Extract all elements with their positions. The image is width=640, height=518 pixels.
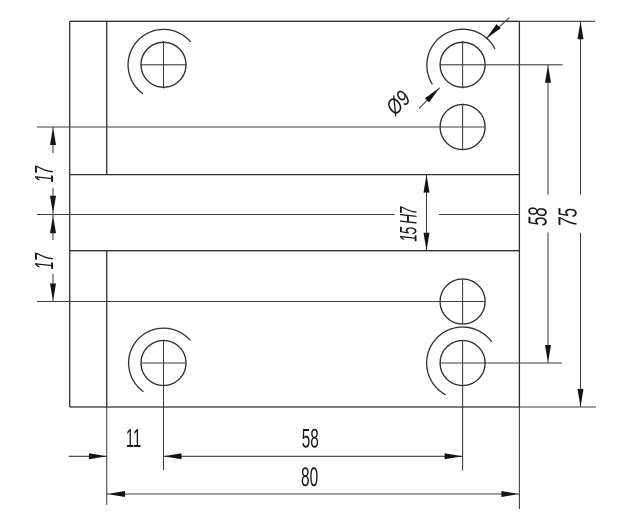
- svg-text:17: 17: [31, 165, 59, 182]
- svg-text:11: 11: [126, 425, 141, 453]
- svg-text:17: 17: [31, 252, 59, 269]
- svg-text:75: 75: [553, 207, 583, 226]
- svg-text:80: 80: [301, 461, 318, 492]
- svg-text:58: 58: [523, 207, 553, 226]
- svg-text:15 H7: 15 H7: [396, 206, 423, 242]
- svg-text:58: 58: [302, 423, 319, 454]
